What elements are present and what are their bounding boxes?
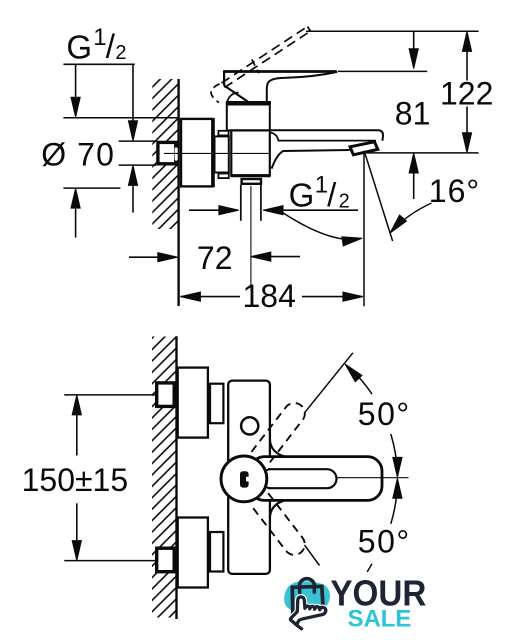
dia70 dimension line upper — [75, 64, 77, 98]
dim 150 arrow down — [72, 541, 81, 561]
svg-text:G: G — [66, 28, 92, 65]
connector bottom tab — [218, 174, 228, 179]
svg-text:SALE: SALE — [348, 606, 412, 632]
lower escutcheon — [178, 518, 208, 588]
hand outline dark — [290, 597, 325, 625]
G1/2 mid arrow left — [263, 206, 283, 215]
dim 150 upper shaft — [76, 415, 78, 456]
svg-text:2: 2 — [339, 191, 350, 213]
G1/2 mid underline — [282, 209, 358, 211]
connector block — [215, 136, 229, 172]
spout inner line — [271, 133, 376, 141]
G1/2 wall nipple square — [158, 142, 176, 163]
lever blade bottom edge and neck — [267, 72, 337, 102]
dim 72 arrow left — [251, 252, 271, 261]
16 deg right leader — [396, 203, 432, 228]
shower outlet tube — [241, 185, 261, 221]
raised lever dashed blade — [222, 27, 311, 88]
dia70 arrow down — [71, 97, 80, 117]
raised lever dashed base — [211, 59, 259, 102]
escutcheon flange — [181, 119, 212, 186]
body-lever fillets — [270, 439, 286, 518]
spout bottom edge — [272, 150, 350, 169]
cartridge thick top edge — [226, 101, 271, 104]
hand wrist flick — [297, 625, 302, 628]
aerator at spout tip — [350, 142, 378, 155]
connector top tab — [218, 131, 228, 136]
svg-text:150±15: 150±15 — [22, 462, 129, 498]
flange top extension line — [63, 117, 179, 119]
cartridge housing — [227, 105, 270, 131]
pivot dome arc — [227, 93, 238, 103]
nipple arrow up — [128, 165, 137, 185]
upper 50 arrow at centerline — [393, 457, 402, 477]
svg-text:/: / — [327, 176, 337, 213]
dim 81 arrow up — [409, 153, 418, 173]
upper union step — [210, 384, 223, 424]
svg-text:Ø 70: Ø 70 — [41, 136, 115, 172]
svg-text:G: G — [289, 177, 315, 214]
G1/2 mid arrow right — [219, 206, 239, 215]
lever (plan, solid) — [250, 457, 382, 501]
slot neck fillets — [265, 469, 271, 488]
dim 122 upper shaft — [466, 51, 468, 81]
dim 72 arrow right — [158, 253, 178, 262]
dim 184 arrow right — [343, 292, 363, 301]
dim 81 arrow down — [409, 49, 418, 69]
wall line (bottom view) — [175, 336, 177, 619]
wall line (top view) — [177, 79, 179, 306]
lower union step — [210, 532, 223, 572]
dashed lever up 50 — [252, 399, 310, 465]
flange bottom extension line — [63, 187, 120, 189]
hand cursor — [290, 597, 325, 625]
svg-text:50°: 50° — [358, 396, 411, 432]
dia70 arrow up — [71, 188, 80, 208]
raised lever top extension line — [306, 30, 479, 32]
G1/2 mid left shaft — [189, 209, 219, 211]
logo blob — [284, 581, 330, 613]
svg-text:/: / — [106, 28, 116, 65]
outlet level extension line — [365, 152, 479, 154]
dim 81 lower shaft — [413, 173, 415, 199]
dim 150 lower shaft — [76, 503, 78, 541]
svg-text:184: 184 — [243, 278, 296, 314]
dia70 dimension line lower — [75, 208, 77, 238]
wall hatching (bottom view) — [152, 337, 176, 618]
label G 1/2 top underline — [63, 63, 134, 65]
svg-text:72: 72 — [197, 240, 233, 276]
dashed lever down 50 — [252, 493, 310, 559]
shopping bag — [292, 586, 323, 614]
nipple dimension line upper — [132, 64, 134, 121]
dim 72 right shaft — [271, 256, 300, 258]
svg-text:1: 1 — [93, 24, 106, 51]
spout tip extension line — [363, 151, 365, 306]
small circle detail — [241, 417, 258, 434]
nipple arrow down — [128, 121, 137, 141]
spout top edge — [271, 130, 383, 141]
dim 122 arrow down — [462, 133, 471, 153]
16 deg arc left leader — [283, 213, 359, 240]
lever grip slot — [268, 469, 337, 488]
dim 122 lower shaft — [466, 107, 468, 134]
lower 50 inner arc — [391, 484, 398, 524]
lever centerline — [336, 477, 408, 479]
upper 50 outer arrowhead — [342, 361, 362, 382]
dim 184 arrow left — [180, 292, 200, 301]
tube centerline — [250, 186, 252, 290]
16 deg right arrowhead — [386, 215, 406, 236]
svg-text:2: 2 — [115, 42, 126, 64]
inlet centerline — [164, 152, 270, 154]
nipple bottom extension line — [119, 164, 156, 166]
flange right edge thick — [212, 118, 215, 187]
upper escutcheon — [178, 368, 208, 438]
dim 122 arrow up — [462, 31, 471, 51]
dim 184 line — [181, 296, 363, 298]
dim 150 arrow up — [72, 395, 81, 415]
hand wrist flick white — [297, 626, 301, 629]
shower outlet nut — [242, 179, 261, 184]
upper nut square — [157, 383, 175, 407]
svg-text:81: 81 — [395, 95, 431, 131]
16 deg slant line — [365, 153, 393, 242]
dim 81 upper shaft — [413, 31, 415, 49]
lever base chamfer — [224, 86, 250, 103]
50 deg upper edge line — [305, 353, 353, 413]
upper 50 outer arc — [357, 375, 372, 394]
body bottom thick edge — [231, 174, 271, 177]
dim 150 top extension — [64, 394, 155, 396]
nipple top extension line — [119, 140, 156, 142]
nipple dimension line lower — [132, 185, 134, 213]
wall hatching (top view) — [152, 79, 177, 229]
bag handle — [299, 579, 314, 593]
lever blade top edge — [224, 70, 337, 73]
lower nut square — [157, 548, 175, 572]
lower 50 arrow at centerline — [393, 478, 402, 498]
svg-text:122: 122 — [440, 76, 493, 112]
lower 50 outer arc — [367, 564, 372, 572]
cartridge cap circle — [221, 456, 267, 502]
svg-text:50°: 50° — [358, 524, 411, 560]
50 deg lower edge line — [305, 545, 320, 566]
upper 50 inner arc — [391, 434, 398, 474]
mixer body — [231, 130, 269, 175]
indicator mark — [240, 471, 249, 487]
dim 150 bottom extension — [64, 560, 155, 562]
16 deg left arrowhead — [342, 234, 363, 246]
svg-text:16°: 16° — [429, 173, 480, 209]
lever left edge — [223, 70, 225, 85]
lever top extension line — [338, 70, 427, 72]
nipple bore slot — [175, 147, 178, 160]
body (plan) — [228, 381, 270, 574]
dim 72 left shaft — [129, 256, 158, 258]
